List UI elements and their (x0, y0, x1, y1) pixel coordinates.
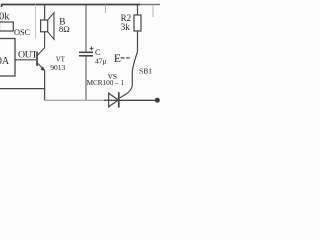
faint right edge wire (152, 5, 154, 18)
svg-text:OSC: OSC (14, 28, 31, 37)
svg-text:8Ω: 8Ω (59, 24, 70, 34)
wire lower-left ground branch (0, 88, 45, 90)
speaker B feed wire (44, 5, 46, 21)
resistor R1 body (partial, cut at left edge) (0, 22, 13, 31)
thyristor VS gate wire (120, 86, 133, 99)
wire OUT pin to transistor base (15, 59, 37, 61)
transistor Q1 collector (37, 32, 45, 56)
thyristor VS cathode bar (118, 92, 120, 107)
svg-text:E: E (114, 52, 121, 65)
capacitor C1 plus mark (90, 47, 94, 51)
IC U1 music chip box (cut at left edge) (0, 39, 15, 77)
thyristor VS anode triangle (109, 93, 119, 107)
transistor Q1 emitter with arrow (37, 63, 45, 71)
svg-text:OUT: OUT (18, 50, 37, 61)
wire bottom rail (45, 99, 104, 101)
capacitor C1 plates (79, 51, 93, 53)
dashed leader from E to switch (121, 57, 130, 59)
switch SB1 lever (132, 52, 137, 72)
speaker B horn (48, 13, 54, 40)
resistor R2 top lead (137, 5, 139, 16)
wire OSC pin vertical (faint) (35, 5, 37, 39)
svg-text:C: C (95, 48, 101, 57)
wire emitter down (44, 71, 46, 101)
svg-text:9013: 9013 (50, 63, 65, 72)
faint stub wire at top (105, 5, 107, 14)
transistor Q1 base bar (36, 52, 38, 66)
resistor R2 body (134, 15, 141, 31)
svg-text:0k: 0k (0, 12, 10, 23)
speaker B magnet box (41, 20, 48, 32)
wire capacitor bottom (85, 56, 87, 100)
svg-text:SB1: SB1 (139, 67, 152, 76)
switch SB1 bottom terminal wire (131, 71, 133, 86)
wire R2 to switch (137, 31, 139, 52)
svg-text:MCR100 – 1: MCR100 – 1 (87, 79, 125, 87)
wire capacitor top (85, 5, 87, 52)
junction dot bottom right (155, 98, 160, 103)
wire top supply rail (2, 5, 140, 8)
svg-text:0A: 0A (0, 56, 10, 67)
svg-text:47μ: 47μ (95, 57, 107, 66)
svg-text:3k: 3k (121, 22, 131, 32)
